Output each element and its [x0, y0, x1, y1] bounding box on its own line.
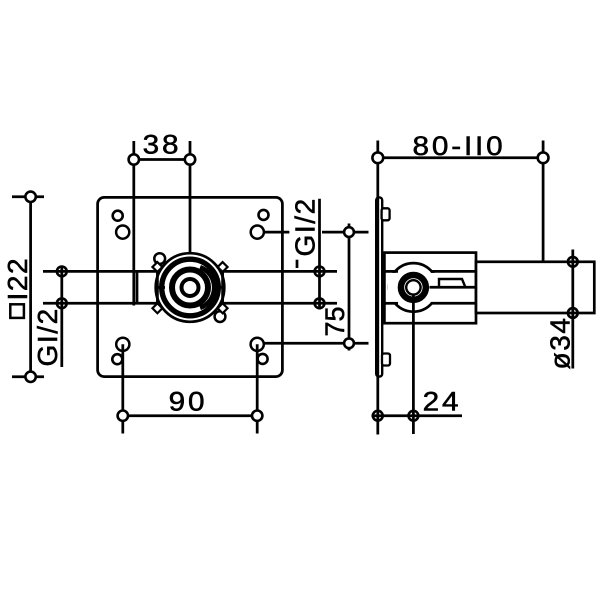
- body inner line bottom left: [384, 302, 398, 305]
- valve body (side view): [384, 253, 476, 324]
- dimension 90: right circle: [252, 411, 262, 421]
- wall plate (front view, square with rounded corners): [98, 197, 283, 376]
- dimension 24: right cross circle: [409, 411, 419, 421]
- dimension 75: top leader segment b: [322, 231, 369, 234]
- label G1/2 right: top cross circle: [315, 267, 325, 277]
- bonnet screw top-left: [154, 253, 165, 264]
- spindle black annulus: [401, 275, 426, 300]
- label G1/2 right: tick mark: [296, 260, 299, 268]
- dimension 80-110: dimension line: [378, 156, 543, 159]
- svg-text:I22: I22: [2, 257, 33, 301]
- dimension diameter 34: top cross circle: [568, 257, 578, 267]
- valve bonnet left edge: [156, 265, 159, 310]
- dimension 75: bottom leader: [264, 342, 368, 345]
- wall plate (side profile): [376, 197, 382, 376]
- bonnet screw bottom-right: [215, 311, 226, 322]
- dimension 24: left cross circle: [373, 411, 383, 421]
- svg-text:90: 90: [169, 387, 208, 417]
- valve center line (side view): [412, 295, 415, 435]
- dimension 75: top leader segment a: [265, 231, 290, 234]
- dimension 90: left extension line: [121, 344, 124, 433]
- screw hole top-left big: [116, 226, 129, 239]
- pipe end bar (left union): [136, 271, 139, 303]
- screw hole top-right big: [251, 226, 264, 239]
- dimension square-122: dimension line: [29, 197, 32, 377]
- dimension 38: dimension line: [134, 158, 190, 161]
- dimension square-122: top circle: [25, 192, 35, 202]
- dimension 80-110: right circle: [538, 152, 549, 163]
- dimension square-122: top tick: [12, 195, 44, 198]
- valve outer circle: [156, 253, 225, 322]
- svg-text:80-II0: 80-II0: [412, 131, 505, 161]
- plate clip tab upper: [382, 208, 390, 220]
- dimension 75: bottom circle: [344, 338, 354, 348]
- dimension 90: right extension line: [256, 344, 259, 433]
- dimension 38: right extension line: [189, 141, 192, 252]
- dimension 80-110: left extension line: [376, 141, 379, 435]
- dimension 90: dimension line: [123, 414, 257, 417]
- pipe bottom line (right segment): [224, 302, 337, 305]
- svg-text:24: 24: [423, 387, 462, 417]
- dimension 38: right end circle: [185, 154, 195, 164]
- bonnet corner mark top-left: [152, 262, 162, 272]
- label G1/2 left: bottom cross circle: [57, 298, 67, 308]
- svg-text:GI/2: GI/2: [32, 307, 63, 366]
- valve inner ring: [182, 279, 199, 296]
- screw hole top-right small: [259, 210, 269, 220]
- dimension 38: left extension line: [132, 141, 135, 306]
- dimension 38: left end circle: [129, 154, 139, 164]
- svg-text:75: 75: [320, 306, 350, 336]
- svg-text:GI/2: GI/2: [289, 197, 320, 256]
- screw hole bottom-right small: [258, 354, 268, 364]
- bonnet corner mark bottom-left: [152, 303, 162, 313]
- dimension 24: dimension line: [372, 414, 463, 417]
- dimension 75: top circle: [344, 227, 354, 237]
- screw hole bottom-left small: [112, 354, 122, 364]
- pipe top line (right segment): [224, 270, 337, 273]
- label G1/2 left: top cross circle: [57, 267, 67, 277]
- label G1/2 right: bottom cross circle: [315, 298, 325, 308]
- port tab (side view): [439, 279, 466, 288]
- valve bonnet right edge: [221, 265, 224, 310]
- svg-text:38: 38: [143, 130, 182, 160]
- screw hole bottom-left big: [116, 338, 129, 351]
- dimension square-122: square symbol: [10, 304, 24, 318]
- bonnet corner mark top-right: [218, 262, 228, 272]
- body mid line right: [430, 286, 477, 289]
- dimension 90: left circle: [118, 411, 128, 421]
- pipe top line (left segment): [43, 270, 156, 273]
- screw hole top-left small: [113, 211, 123, 221]
- dimension square-122: bottom circle: [25, 372, 35, 382]
- svg-text:ø34: ø34: [545, 316, 576, 369]
- body inner line top left: [384, 270, 398, 273]
- dimension 75: dimension line: [348, 224, 351, 351]
- white cover band over boss circle: [388, 273, 439, 302]
- dimension diameter 34: dimension line: [571, 250, 574, 369]
- dimension 80-110: left circle: [372, 152, 383, 163]
- bonnet corner mark bottom-right: [218, 303, 228, 313]
- dimension square-122: bottom tick: [12, 375, 44, 378]
- plate clip tab lower: [382, 354, 390, 366]
- label G1/2 right: extension line: [318, 199, 321, 310]
- body inner line bottom right: [431, 302, 476, 305]
- pipe bottom line (left segment): [43, 302, 156, 305]
- outlet cylinder: [476, 262, 594, 313]
- valve cartridge crescent arc: [200, 267, 214, 308]
- valve port stub left: [157, 286, 165, 289]
- spindle inner circle: [406, 280, 420, 294]
- dimension diameter 34: bottom cross circle: [568, 308, 578, 318]
- dimension 80-110: right extension line: [542, 141, 545, 263]
- boss circle (side view): [389, 263, 438, 312]
- screw hole bottom-right big: [251, 338, 264, 351]
- valve ring r18: [172, 270, 208, 306]
- valve port stub right: [217, 286, 225, 289]
- label G1/2 left: extension line: [60, 266, 63, 368]
- valve ring r28: [162, 259, 219, 316]
- body inner line top right: [431, 270, 476, 273]
